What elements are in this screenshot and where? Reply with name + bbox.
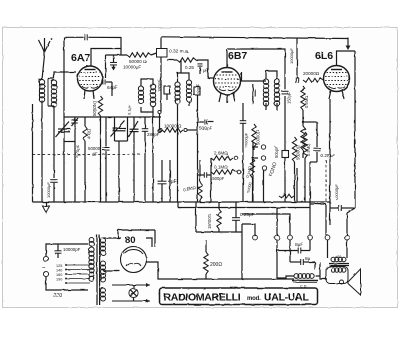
meter shunt box xyxy=(157,49,168,58)
svg-text:0.32 m.a.: 0.32 m.a. xyxy=(169,49,189,55)
coil L2 RF secondary xyxy=(48,79,57,108)
label 280pF xyxy=(147,132,160,137)
wire mains top xyxy=(46,244,88,256)
wire step2 xyxy=(242,208,290,236)
label 10000pF fb xyxy=(334,184,339,200)
transformer T1 sec fil xyxy=(101,261,106,282)
wire top rail B+ xyxy=(161,37,349,39)
resistor 2.6 Mohm xyxy=(211,156,238,160)
svg-text:50000 Ω: 50000 Ω xyxy=(129,59,147,64)
capacitor 0.25uF bypass xyxy=(232,202,240,227)
output transformer primary xyxy=(331,257,346,261)
label 10000pF vert xyxy=(46,182,51,198)
transformer T1 primary xyxy=(89,238,94,282)
label tube 6L6 xyxy=(315,50,333,62)
capacitor grid 6L6 xyxy=(296,77,298,83)
wire step5 xyxy=(347,208,355,235)
wire L2 top xyxy=(54,72,64,79)
capacitor 50000pF pad xyxy=(103,117,110,202)
capacitor 500pF box xyxy=(282,96,289,158)
label 150pF IF1 xyxy=(196,84,201,96)
terminal socket 4 xyxy=(325,235,330,240)
terminal socket 1 xyxy=(275,235,280,240)
capacitor 10000pF ant xyxy=(50,180,58,202)
label 8uF b xyxy=(305,256,311,262)
svg-text:10000μF: 10000μF xyxy=(46,182,51,198)
wire rect top box xyxy=(118,230,155,247)
terminal socket 5 xyxy=(345,235,350,240)
resistor 400 ohm xyxy=(83,117,87,202)
wire af cols xyxy=(285,158,305,203)
svg-text:0.25: 0.25 xyxy=(185,65,194,70)
wire 0.2M down xyxy=(302,150,304,158)
wire field left xyxy=(277,276,294,278)
wire mains taps xyxy=(65,264,90,284)
resistor 0.8 Mohm xyxy=(198,160,202,202)
svg-text:125: 125 xyxy=(56,264,62,268)
transformer T1 core xyxy=(97,235,100,305)
wire node down xyxy=(159,114,161,130)
output transformer core xyxy=(329,264,349,266)
svg-text:6B7: 6B7 xyxy=(228,50,247,62)
wire osc coil tops xyxy=(141,79,153,86)
wire 6A7 grid left xyxy=(64,71,76,73)
node AVC right xyxy=(187,130,197,202)
wire vertical x161 xyxy=(160,37,162,112)
resistor 0.6 Mohm xyxy=(301,86,305,110)
wire rect output xyxy=(147,262,295,279)
wire 6L6 plate top xyxy=(337,51,356,66)
wire x297 from top xyxy=(296,38,298,78)
label 50000 pF xyxy=(88,146,101,156)
ground symbol xyxy=(43,202,50,213)
svg-text:UAL-UAL: UAL-UAL xyxy=(264,292,309,304)
wire IF2 tops xyxy=(266,71,277,79)
label 500pF vert xyxy=(274,146,279,158)
jack FONO terminals xyxy=(261,145,266,170)
tube V2 6B7 xyxy=(214,68,241,95)
wire 64pF link xyxy=(102,80,112,96)
wire gang frame xyxy=(32,104,34,202)
label 180pF xyxy=(157,80,162,92)
svg-text:0.6MΩ: 0.6MΩ xyxy=(304,96,309,108)
label 10000 ohm xyxy=(164,124,182,129)
coil IF2 primary xyxy=(263,79,268,106)
label 0.32 m.a. xyxy=(169,49,189,55)
label 500pF xyxy=(199,126,212,131)
terminal socket 2 xyxy=(288,235,293,240)
svg-text:1500pF: 1500pF xyxy=(210,176,225,181)
svg-text:8μF: 8μF xyxy=(295,242,303,248)
wire to shunt box xyxy=(151,53,157,55)
label box RADIOMARELLI xyxy=(160,288,318,305)
label 50000 ohm xyxy=(129,59,147,64)
label 400 ohm xyxy=(87,129,92,139)
resistor 0.1 Mohm xyxy=(211,170,241,174)
wire shuntbox to resistor xyxy=(167,59,177,61)
svg-text:mod.: mod. xyxy=(247,296,261,302)
wire IF1 tops xyxy=(178,60,190,82)
svg-text:10000μF: 10000μF xyxy=(289,48,294,64)
wire rect plate top xyxy=(103,238,152,247)
label 20000 ohm xyxy=(303,71,320,76)
svg-text:RADIOMARELLI: RADIOMARELLI xyxy=(164,292,241,304)
svg-text:50000Ω: 50000Ω xyxy=(256,130,261,145)
wire 6A7 top loop xyxy=(64,37,127,78)
terminal socket 0 xyxy=(253,235,258,240)
node osc xyxy=(158,110,161,113)
wire stator bus y117 xyxy=(64,116,161,118)
svg-text:6L6: 6L6 xyxy=(315,50,333,62)
field coil xyxy=(294,274,314,279)
capacitor 64pF xyxy=(103,80,105,85)
svg-text:180pF: 180pF xyxy=(157,80,162,92)
wire audio grid line xyxy=(210,158,212,202)
ground bus xyxy=(33,202,331,208)
wire 0.6M node xyxy=(302,110,317,126)
label 0.8M right xyxy=(0,0,1,1)
resistor screen series xyxy=(177,58,196,62)
svg-text:10000pF: 10000pF xyxy=(63,247,81,252)
wire field drop xyxy=(310,240,315,270)
svg-text:4μF: 4μF xyxy=(168,179,177,185)
svg-text:10000μF: 10000μF xyxy=(334,184,339,200)
wire left drop x64 xyxy=(63,37,65,202)
svg-text:10000μF: 10000μF xyxy=(123,65,141,70)
capacitor 10000pF mains xyxy=(55,244,62,258)
resistor 0.5 Mohm xyxy=(303,132,307,158)
transformer T1 sec lamp xyxy=(101,288,106,301)
label tube 6A7 xyxy=(71,52,90,64)
svg-text:220: 220 xyxy=(54,293,63,299)
resistor 50000 ohm AF xyxy=(292,137,296,202)
tube V2 top cap xyxy=(226,49,228,68)
capacitor 10000pF fb xyxy=(334,205,355,211)
wire audio col x243 xyxy=(242,128,244,202)
label 2.6 Mohm xyxy=(214,151,228,156)
label 15000 ohm xyxy=(207,214,212,229)
label 10000pF mains xyxy=(63,247,81,252)
svg-text:160: 160 xyxy=(56,273,62,277)
wire L1 bottom down xyxy=(41,101,43,203)
capacitor 280pF xyxy=(142,117,149,202)
label FONO xyxy=(268,161,278,177)
label tube 6B7 xyxy=(228,50,247,62)
label 0.25uF bypass xyxy=(240,212,255,217)
label 50000 AF xyxy=(296,145,301,160)
svg-text:15000Ω: 15000Ω xyxy=(207,214,212,229)
wire step4 xyxy=(310,204,326,235)
wire lamp bottom xyxy=(112,299,150,303)
resistor 20000 ohm grid xyxy=(303,78,323,82)
svg-text:150pF: 150pF xyxy=(287,92,292,104)
speaker cone xyxy=(348,269,361,295)
svg-text:400Ω: 400Ω xyxy=(87,129,92,139)
svg-text:0.1μF: 0.1μF xyxy=(127,104,132,115)
wire x330 vertical xyxy=(329,99,331,225)
label 500 field xyxy=(335,255,341,259)
label 10000 pF xyxy=(123,65,141,70)
label 10000pF right xyxy=(289,48,294,64)
wire fb left xyxy=(330,207,334,209)
svg-text:140: 140 xyxy=(56,269,62,273)
wire fil link xyxy=(103,270,120,272)
coil L4 osc secondary xyxy=(150,84,155,107)
variable capacitor VC3 trimmer xyxy=(129,117,139,202)
svg-text:pF: pF xyxy=(92,151,97,156)
label 0.6 Mohm xyxy=(304,96,309,108)
svg-text:190: 190 xyxy=(56,278,62,282)
field coil core xyxy=(292,281,318,283)
svg-text:20000Ω: 20000Ω xyxy=(303,71,320,76)
wire IF1 bottoms xyxy=(167,94,198,202)
wire vertical comb to ground bus xyxy=(75,107,170,202)
svg-text:10000 Ω: 10000 Ω xyxy=(164,124,182,129)
wire L2 bottom xyxy=(53,106,55,178)
capacitor 8uF b xyxy=(290,240,315,265)
tube V1 legs xyxy=(84,90,94,99)
tube V1 6A7 xyxy=(78,66,103,91)
label 10000pF det xyxy=(245,132,249,148)
resistor 50000 ohm cathode xyxy=(98,96,102,116)
tube V3 legs xyxy=(329,90,344,99)
capacitor 10000pF det xyxy=(240,103,247,128)
resistor 15000 ohm bleeder xyxy=(217,209,221,229)
svg-text:500pF: 500pF xyxy=(199,126,212,131)
svg-text:0.1MΩ: 0.1MΩ xyxy=(214,165,228,170)
label 50000 vol xyxy=(246,182,253,193)
wire dashed cathode xyxy=(325,160,327,203)
wire lamp top xyxy=(112,283,150,287)
capacitor trimmer IF1a xyxy=(164,86,170,94)
wire IF2 bottoms xyxy=(266,103,277,110)
svg-text:200Ω: 200Ω xyxy=(210,262,222,268)
capacitor 500pF xyxy=(196,120,214,125)
svg-text:50000Ω: 50000Ω xyxy=(92,100,97,116)
label 0.1uF osc xyxy=(127,104,132,115)
label 0.25uF out xyxy=(321,153,336,158)
resistor 200 ohm bias xyxy=(204,252,208,274)
capacitor 0.25uF out xyxy=(310,122,321,162)
svg-text:~: ~ xyxy=(42,266,46,272)
wire mains bottom xyxy=(46,277,88,290)
svg-text:8μ: 8μ xyxy=(305,256,311,262)
capacitor 8uF a xyxy=(277,248,310,254)
resistor 0.2 Mohm xyxy=(301,126,305,150)
resistor 50000 ohm bias xyxy=(279,194,294,198)
capacitor 4uF xyxy=(158,160,167,202)
coil IF1 secondary xyxy=(186,80,191,102)
antenna xyxy=(39,38,53,55)
terminal mains 1 xyxy=(43,256,48,261)
svg-text:0.25μF: 0.25μF xyxy=(321,153,336,158)
capacitor IF2a xyxy=(253,84,255,104)
lamp pilot xyxy=(129,288,138,297)
svg-text:10000μF: 10000μF xyxy=(245,132,249,148)
capacitor osc pad xyxy=(110,55,117,71)
wire field right xyxy=(316,262,327,279)
transformer T1 sec HV xyxy=(101,238,106,255)
wire lamp verticals xyxy=(133,285,135,301)
coil L1 antenna xyxy=(39,79,44,102)
wire antenna down xyxy=(42,55,45,80)
label 0.5 Mohm xyxy=(306,144,311,156)
wire resistor to 6B7 col xyxy=(196,60,214,78)
coil L3 osc primary xyxy=(138,86,143,104)
tube V4 80 rectifier xyxy=(121,247,147,273)
label mains ~ xyxy=(42,266,46,272)
label 4uF xyxy=(168,179,177,185)
capacitor trimmer VC1t xyxy=(71,118,78,126)
wire audio col x253 xyxy=(252,142,254,202)
capacitor 1500pF xyxy=(198,172,212,178)
wire fono link xyxy=(252,147,258,158)
wire 6B7 plate up xyxy=(240,72,266,81)
label 5-75pF xyxy=(74,144,82,158)
svg-text:80: 80 xyxy=(125,235,136,246)
wire bleeder bottom xyxy=(196,202,242,279)
label 50000 ohm det xyxy=(256,130,261,145)
resistor 0.1 Mohm vol xyxy=(250,158,254,202)
wire AVC res ends xyxy=(159,128,187,131)
capacitor 0.25uF screen xyxy=(198,64,203,74)
svg-text:6A7: 6A7 xyxy=(71,52,90,64)
capacitor trimmer IF1b xyxy=(194,87,200,95)
svg-text:μF: μF xyxy=(203,68,209,73)
coil IF2 secondary xyxy=(274,79,279,106)
label 64pF xyxy=(107,85,118,91)
wire 8uF a drop xyxy=(276,240,278,278)
svg-text:0.5MΩ: 0.5MΩ xyxy=(306,144,311,156)
wire top corner arrow xyxy=(346,38,351,51)
tube V2 legs xyxy=(219,93,235,103)
resistor 50000 ohm series xyxy=(127,53,151,57)
resistor 50000 ohm det xyxy=(252,124,256,150)
label 0.1 Mohm xyxy=(214,165,228,170)
speaker body xyxy=(326,267,348,284)
node grid xyxy=(158,129,161,132)
label field coil xyxy=(300,285,307,289)
label 150pF xyxy=(287,92,292,104)
speaker voice coil dot xyxy=(340,280,344,284)
svg-text:2.6MΩ: 2.6MΩ xyxy=(214,151,228,156)
capacitor 150pF det xyxy=(282,91,289,94)
label 8uF a xyxy=(295,242,303,248)
label tube 80 xyxy=(125,235,136,246)
label 0.8 Mohm xyxy=(183,185,197,193)
wire detector line xyxy=(227,49,285,89)
label 0.25 uF xyxy=(185,65,209,73)
label tap voltages xyxy=(54,264,63,299)
terminal mains 2 xyxy=(43,271,48,276)
variable capacitor VC2 xyxy=(111,117,128,202)
wire osc bottom to node xyxy=(141,107,153,112)
terminal socket 3 xyxy=(308,235,313,240)
wire x355 vertical xyxy=(354,51,356,208)
wire step3 xyxy=(309,162,311,235)
svg-text:50000Ω: 50000Ω xyxy=(296,145,301,160)
coil IF1 primary xyxy=(175,82,180,104)
label 50000 ohm vertical xyxy=(92,100,97,116)
resistor 10000 ohm AVC xyxy=(162,128,183,132)
variable capacitor VC1 xyxy=(56,117,76,142)
label 200 ohm xyxy=(210,262,222,268)
label 1500pF xyxy=(210,176,225,181)
svg-text:500pF: 500pF xyxy=(274,146,279,158)
label 0.1M vol xyxy=(245,165,253,178)
wire audio col x263 xyxy=(263,170,265,202)
tube V3 6L6 xyxy=(324,66,350,92)
wire bias top xyxy=(205,240,207,279)
capacitor top coupling xyxy=(85,34,87,40)
gang dashed line xyxy=(33,154,143,156)
wire OT drops xyxy=(328,240,348,258)
wire step1 xyxy=(242,224,255,235)
output transformer secondary xyxy=(331,268,346,272)
